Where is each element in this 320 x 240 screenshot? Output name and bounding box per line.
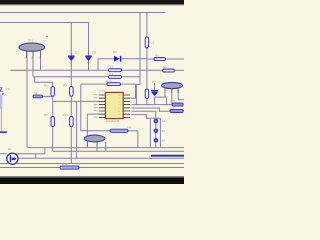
svg-text:R14: R14 [106, 79, 112, 83]
svg-text:D1: D1 [75, 51, 79, 55]
svg-text:R3: R3 [44, 84, 48, 88]
svg-text:R13: R13 [108, 72, 114, 76]
svg-text:R6: R6 [163, 65, 167, 69]
svg-text:R4: R4 [64, 84, 68, 88]
svg-text:U2A: U2A [99, 88, 105, 92]
svg-text:LM324AD: LM324AD [106, 119, 120, 123]
svg-text:S1: S1 [162, 119, 166, 123]
svg-text:R11: R11 [62, 162, 68, 166]
svg-text:P1: P1 [172, 99, 176, 103]
svg-text:D2: D2 [93, 51, 97, 55]
svg-text:R2: R2 [34, 91, 38, 95]
svg-text:z: z [2, 92, 4, 96]
svg-text:D3: D3 [113, 50, 117, 54]
svg-text:R5: R5 [155, 54, 159, 58]
svg-text:R9: R9 [44, 113, 48, 117]
svg-text:S3: S3 [162, 138, 166, 142]
svg-text:P2: P2 [171, 106, 175, 110]
svg-text:R10: R10 [63, 113, 69, 117]
svg-text:B1: B1 [8, 147, 12, 151]
svg-text:C2: C2 [151, 41, 155, 45]
svg-text:TP1: TP1 [28, 39, 34, 43]
svg-text:R8: R8 [128, 125, 132, 129]
svg-text:D4: D4 [152, 80, 156, 84]
svg-text:S2: S2 [162, 129, 166, 133]
svg-text:R12: R12 [108, 65, 114, 69]
